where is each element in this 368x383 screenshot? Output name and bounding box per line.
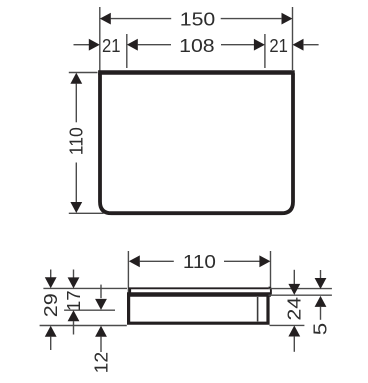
svg-text:150: 150: [180, 9, 216, 30]
svg-text:5: 5: [309, 323, 330, 336]
svg-text:17: 17: [63, 291, 84, 312]
svg-text:24: 24: [284, 297, 305, 321]
svg-text:21: 21: [269, 35, 288, 56]
svg-text:110: 110: [66, 127, 87, 155]
svg-text:21: 21: [102, 35, 121, 56]
svg-text:12: 12: [90, 352, 111, 374]
svg-text:108: 108: [179, 35, 215, 56]
svg-text:110: 110: [183, 251, 216, 272]
svg-text:29: 29: [40, 293, 61, 317]
